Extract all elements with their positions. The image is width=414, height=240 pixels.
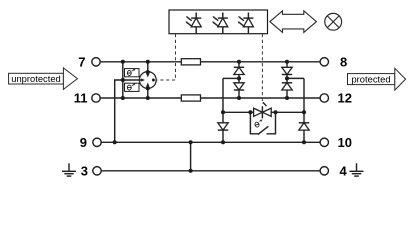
resistor R2 (line 11-12) <box>181 95 200 101</box>
LED indicator box <box>169 10 268 34</box>
ground left (terminal 3) <box>62 163 76 176</box>
TVS suppressor diode (bidirectional) <box>254 106 272 118</box>
terminal 9 <box>93 138 101 146</box>
junction node rail7/thermal-branch <box>121 60 125 64</box>
junction node rail9/column-left <box>221 140 225 144</box>
junction node GDT top electrode <box>146 70 150 74</box>
junction node thermal-branch/ground-tap <box>121 78 125 82</box>
junction node TVS row left <box>221 110 225 114</box>
svg-text:8: 8 <box>340 54 347 69</box>
dashed link LED box to GDT <box>157 34 176 80</box>
terminal 7 <box>92 58 100 66</box>
terminal 4 <box>320 167 328 175</box>
svg-text:10: 10 <box>338 135 352 150</box>
link arrow tick at TVS <box>263 102 267 106</box>
junction node rail12/diode-branch-right <box>285 96 289 100</box>
junction node rail8/diode-branch-right <box>285 60 289 64</box>
wire rail 9-10 <box>101 141 320 143</box>
thermal disconnect box theta 1 <box>125 69 140 77</box>
terminal 11 <box>92 94 100 102</box>
resistor R1 (line 7-8) <box>181 59 200 65</box>
wire TVS row <box>223 111 304 113</box>
junction node GDT bottom electrode <box>146 86 150 90</box>
svg-text:3: 3 <box>81 163 88 178</box>
svg-text:7: 7 <box>78 54 85 69</box>
LED 1 <box>186 13 202 34</box>
wire tap left to outer column <box>223 77 239 79</box>
junction node rail11/thermal-branch <box>121 96 125 100</box>
junction node between diodes right <box>285 76 289 80</box>
wire rail 11-12 <box>100 97 320 99</box>
wire outer column right <box>303 78 305 142</box>
junction node rail9/ground-tap <box>113 140 117 144</box>
junction node rail10/column-right <box>302 140 306 144</box>
wire outer column left <box>222 78 224 142</box>
junction node rail8/diode-branch-left <box>237 60 241 64</box>
wire rail 3-4 <box>101 170 320 172</box>
terminal 8 <box>320 58 328 66</box>
wire rail 7-8 <box>100 61 320 63</box>
junction node rail3/ground-link <box>189 169 193 173</box>
svg-text:protected: protected <box>351 74 390 85</box>
svg-text:12: 12 <box>338 91 352 106</box>
thermal disconnect box theta 2 <box>125 83 140 91</box>
junction node switch right <box>273 110 277 114</box>
label protected <box>348 68 406 90</box>
junction node between diodes left <box>237 76 241 80</box>
terminal 3 <box>93 167 101 175</box>
terminal 10 <box>320 138 328 146</box>
ground right (terminal 4) <box>350 163 364 176</box>
terminal 12 <box>320 94 328 102</box>
svg-text:9: 9 <box>80 135 87 150</box>
junction node rail12/diode-branch-left <box>237 96 241 100</box>
double arrow symbol <box>270 11 317 33</box>
lamp symbol <box>325 13 342 30</box>
LED 3 <box>238 13 254 34</box>
wire GDT ground tap <box>115 80 145 142</box>
wire ground link 9-3 <box>190 142 192 171</box>
LED 2 <box>212 13 228 34</box>
gas discharge tube F1 <box>139 62 156 98</box>
junction node rail11/GDT <box>146 96 150 100</box>
diode lower left <box>218 123 228 130</box>
svg-text:11: 11 <box>74 91 88 106</box>
diode lower right <box>299 123 309 130</box>
junction node TVS row right <box>302 110 306 114</box>
upper diode pair right branch <box>282 62 292 98</box>
label unprotected <box>9 68 78 90</box>
upper diode pair left branch <box>234 62 244 98</box>
wire tap right to outer column <box>287 77 304 79</box>
svg-text:unprotected: unprotected <box>11 73 61 84</box>
wire GDT left branch <box>122 62 124 98</box>
junction node switch left <box>248 110 252 114</box>
dashed link LED box to TVS <box>261 34 263 104</box>
svg-text:4: 4 <box>340 163 348 178</box>
junction node rail9/ground-link <box>189 140 193 144</box>
thermal switch under TVS <box>250 112 275 134</box>
junction node rail7/GDT <box>146 60 150 64</box>
